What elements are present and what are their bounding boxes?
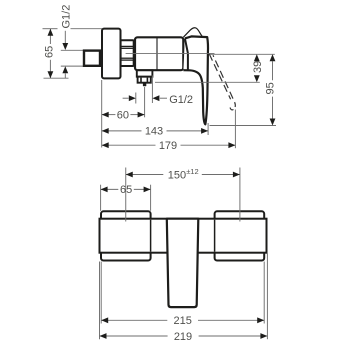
wire dim 143 line left: [102, 130, 142, 132]
wire extension escutcheon outer left: [100, 262, 102, 324]
wire outlet thread root line left: [140, 78, 142, 82]
wire dim 219 line right: [199, 335, 268, 337]
node dim 150 arrow right: [233, 172, 240, 178]
node G1/2 leader arrow up: [62, 66, 68, 73]
svg-text:39: 39: [252, 61, 264, 73]
component lever handle blade+cap (side view): [183, 36, 208, 124]
wire dim 215 line right: [198, 319, 264, 321]
wire extension body outer right: [266, 254, 268, 340]
wire dim 65 front line left: [101, 188, 119, 190]
node dim 215 arrow left: [101, 317, 108, 323]
wire extension line lever bottom (y=125): [210, 125, 277, 127]
node dim 143 arrow right: [201, 128, 208, 134]
svg-text:95: 95: [265, 82, 277, 94]
svg-text:65: 65: [120, 184, 132, 196]
component right escutcheon (front view): [215, 211, 265, 260]
svg-text:219: 219: [174, 331, 192, 343]
component lever handle (front view): [167, 219, 199, 307]
wire G1/2 outlet arrow tail left: [123, 97, 129, 99]
wire lever heel outline (thin): [183, 28, 202, 37]
wire dim 65 vertical line upper: [49, 29, 51, 44]
svg-text:65: 65: [43, 46, 55, 58]
wire joint right escutcheon sleeve: [214, 220, 216, 252]
svg-text:60: 60: [117, 109, 129, 121]
wire lever front edge: [185, 38, 188, 70]
wire dim 95 line upper: [272, 61, 274, 80]
wire dim 60 line left: [102, 114, 116, 116]
svg-text:215: 215: [174, 315, 192, 327]
wire G1/2 leader lower: [64, 73, 66, 78]
component S-union connector (side view): [84, 51, 100, 66]
wire dashed lever tip (open position): [230, 102, 235, 110]
wire extension line union bottom: [61, 65, 85, 67]
wire nut facet line 3: [121, 57, 134, 59]
wire extension escutcheon left edge: [100, 185, 102, 211]
svg-text:±12: ±12: [186, 167, 198, 176]
node dim 65 arrow up: [48, 29, 54, 36]
wire dim 219 line left: [100, 335, 168, 337]
wire extension outlet left edge: [135, 93, 137, 104]
wire centerline of valve: [126, 52, 215, 54]
wire extension escutcheon outer right: [263, 262, 265, 324]
wire G1/2 leader upper: [64, 31, 66, 43]
wire nut facet line 2: [121, 47, 134, 49]
wire nut facet line 1: [121, 45, 134, 47]
svg-text:150: 150: [168, 169, 186, 181]
wire G1/2 outlet leader: [160, 97, 167, 99]
svg-text:143: 143: [145, 126, 163, 138]
node dim 39 arrow up: [254, 54, 260, 61]
component outlet thread nipple G1/2: [138, 77, 151, 83]
node dim 150 arrow left: [126, 172, 133, 178]
node dim 215 arrow right: [257, 317, 264, 323]
wire extension body outer left: [99, 262, 101, 340]
node dim 95 arrow down: [270, 119, 276, 126]
node dim 143 arrow left: [102, 128, 109, 134]
wire dim 65 front line right: [134, 188, 151, 190]
node dim 65 front arrow left: [101, 187, 108, 193]
node dim 179 arrow left: [102, 142, 109, 148]
node dim 60 arrow left: [102, 112, 109, 118]
wire dim 65 vertical line lower: [49, 60, 51, 78]
node dim 39 arrow down: [254, 75, 260, 82]
node dim 219 arrow left: [100, 333, 107, 339]
wire dim 150 line right: [202, 174, 240, 176]
wire dim 150 line left: [126, 174, 164, 176]
component mixer body bar (front view): [100, 219, 267, 253]
wire extension line union top: [61, 49, 85, 51]
wire dim 39 line lower: [256, 75, 258, 77]
wire extension line dashed lever end: [234, 110, 236, 149]
svg-text:G1/2: G1/2: [60, 5, 72, 29]
node G1/2 leader arrow down: [62, 43, 68, 50]
node dim 95 arrow up: [270, 54, 276, 61]
wire extension escutcheon right edge: [150, 185, 152, 211]
wire dim 179 line left: [102, 144, 156, 146]
wire extension line lever top (y=54): [210, 53, 275, 55]
wire extension line top of escutcheon (left segment): [43, 28, 58, 30]
wire dim 60 line right: [130, 114, 144, 116]
wire dim 39 line upper: [256, 59, 258, 62]
component hex union nut (side view): [121, 40, 134, 66]
wire extension right connection center: [239, 168, 241, 222]
wire nut facet line 4: [121, 59, 134, 61]
node G1/2 outlet arrow pointing right: [129, 95, 136, 101]
wire extension line bottom of escutcheon: [44, 77, 69, 79]
wire dim 143 line right: [167, 130, 209, 132]
wire extension outlet right edge: [151, 76, 153, 104]
component left escutcheon (front view): [101, 211, 151, 260]
component outlet collar: [137, 70, 153, 76]
wire extension line lever tip: [207, 123, 209, 135]
component escutcheon (side view): [102, 29, 121, 79]
wire extension line lever travel (y=82): [155, 81, 260, 83]
node dim 65 front arrow right: [144, 187, 151, 193]
wire joint left escutcheon sleeve: [150, 220, 152, 252]
node dim 179 arrow right: [228, 142, 235, 148]
wire dashed lever edge 1 (open position): [209, 54, 230, 99]
node dim 60 arrow right: [138, 112, 145, 118]
node outlet tip stub: [143, 83, 146, 86]
wire dashed lever edge 2 (open position): [213, 55, 235, 102]
wire outlet thread root line right: [146, 78, 148, 82]
node G1/2 outlet arrow pointing left: [152, 95, 159, 101]
node dim 65 arrow down: [48, 71, 54, 78]
wire dim 179 line right: [181, 144, 236, 146]
wire dim 215 line left: [101, 319, 167, 321]
svg-text:179: 179: [159, 140, 177, 152]
wire extension line top of escutcheon (right segment): [71, 28, 103, 30]
component mixer body (side view): [135, 37, 183, 70]
wire extension line outlet center: [144, 87, 146, 117]
wire dim 95 line lower: [272, 97, 274, 119]
wire body joint line vertical: [156, 37, 158, 70]
wire extension line wall plane: [101, 80, 103, 148]
svg-text:G1/2: G1/2: [169, 94, 193, 106]
wire extension left connection center: [125, 168, 127, 222]
node dim 219 arrow right: [260, 333, 267, 339]
